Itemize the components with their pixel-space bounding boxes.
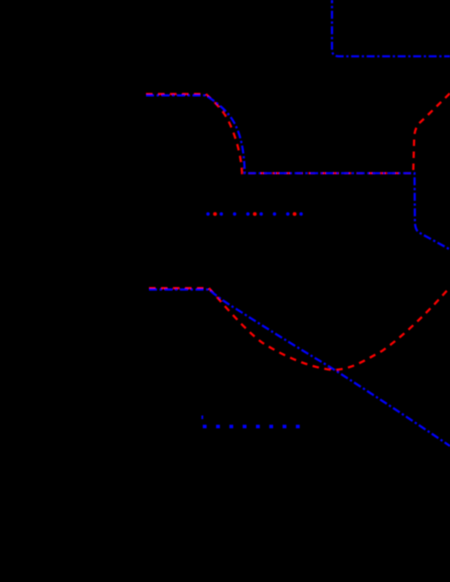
- bottom panel: small blue tick above dotted line: [201, 416, 203, 420]
- bottom panel: red dashed phase curve (flat, dip, minimum, rise to right): [149, 287, 450, 370]
- top panel: blue dash-dot gain curve (passband, transition, stopband floor, drop at right): [146, 95, 450, 249]
- bottom panel: blue dotted reference line at y=426.5: [203, 425, 300, 429]
- top panel: blue dash-dot branch entering from top edge, plateau to right edge: [332, 0, 450, 56]
- top panel: red dotted reference line at y=214: [213, 212, 296, 216]
- bottom panel: blue dash-dot phase curve (flat then near-linear decline): [149, 290, 450, 447]
- top panel: red dashed gain curve (passband, transition, stopband floor, rise at right): [146, 93, 450, 173]
- top panel: blue dotted reference line at y=214: [206, 212, 302, 215]
